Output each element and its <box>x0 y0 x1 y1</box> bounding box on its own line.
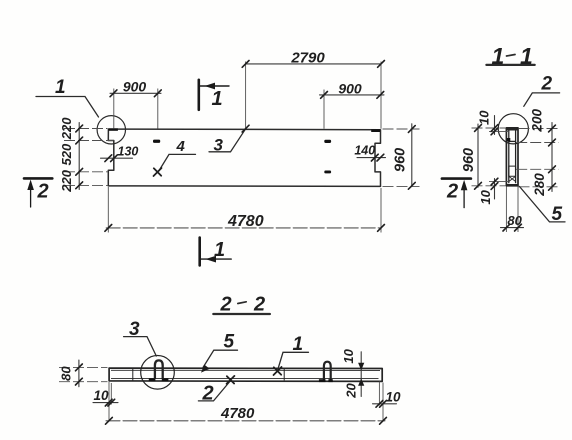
svg-text:200: 200 <box>530 109 545 133</box>
svg-text:1: 1 <box>212 88 223 110</box>
svg-text:1: 1 <box>293 334 304 355</box>
svg-text:10: 10 <box>477 110 492 125</box>
svg-text:5: 5 <box>224 332 235 353</box>
svg-text:2: 2 <box>37 181 49 203</box>
svg-text:10: 10 <box>94 388 110 403</box>
svg-text:960: 960 <box>461 148 477 172</box>
svg-text:140: 140 <box>354 144 375 158</box>
svg-text:5: 5 <box>552 204 563 225</box>
svg-text:10: 10 <box>478 189 493 204</box>
svg-text:4: 4 <box>176 138 186 155</box>
svg-text:280: 280 <box>532 173 547 197</box>
svg-text:1: 1 <box>492 43 505 69</box>
svg-text:2: 2 <box>541 74 553 95</box>
svg-text:2790: 2790 <box>290 50 325 67</box>
svg-text:80: 80 <box>59 366 74 381</box>
svg-text:130: 130 <box>118 145 139 159</box>
svg-text:900: 900 <box>123 79 147 95</box>
svg-text:3: 3 <box>214 136 224 155</box>
svg-text:2: 2 <box>253 294 265 316</box>
svg-text:2: 2 <box>202 382 214 404</box>
svg-text:1: 1 <box>520 43 533 69</box>
svg-text:4780: 4780 <box>220 405 255 422</box>
svg-text:520: 520 <box>59 143 74 165</box>
svg-text:900: 900 <box>338 81 362 97</box>
svg-text:2: 2 <box>446 181 458 203</box>
svg-text:4780: 4780 <box>227 213 264 230</box>
svg-text:10: 10 <box>341 348 356 363</box>
svg-text:3: 3 <box>129 319 140 340</box>
svg-text:1: 1 <box>214 239 225 261</box>
svg-text:80: 80 <box>507 213 522 228</box>
svg-text:220: 220 <box>59 169 74 192</box>
svg-text:1: 1 <box>55 77 66 98</box>
svg-text:960: 960 <box>393 148 409 172</box>
svg-text:220: 220 <box>59 117 74 140</box>
svg-text:20: 20 <box>343 383 358 399</box>
svg-text:2: 2 <box>220 294 232 316</box>
svg-text:10: 10 <box>386 389 402 404</box>
